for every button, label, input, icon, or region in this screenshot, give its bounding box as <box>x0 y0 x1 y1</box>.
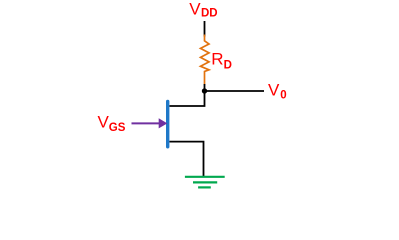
svg-text:V: V <box>268 81 280 100</box>
transistor Q1 gate bar <box>166 100 169 149</box>
node drain junction <box>202 88 207 93</box>
label RD <box>211 50 232 72</box>
svg-text:D: D <box>224 59 232 71</box>
label VDD <box>189 0 217 19</box>
wire VDD to resistor <box>204 21 206 37</box>
resistor RD <box>201 35 210 85</box>
svg-text:R: R <box>211 50 223 69</box>
svg-text:V: V <box>98 112 110 131</box>
ground <box>185 177 225 188</box>
svg-text:DD: DD <box>201 7 218 19</box>
svg-text:0: 0 <box>280 90 286 102</box>
label V0 <box>268 81 287 102</box>
wire drain <box>170 91 205 106</box>
wire node to output <box>205 90 265 92</box>
svg-text:V: V <box>189 0 201 19</box>
wire source <box>170 142 204 177</box>
gate arrowhead <box>159 118 168 128</box>
label VGS <box>98 112 126 134</box>
svg-text:GS: GS <box>109 122 126 134</box>
gate arrow wire <box>132 122 161 124</box>
wire resistor to node <box>204 84 206 91</box>
